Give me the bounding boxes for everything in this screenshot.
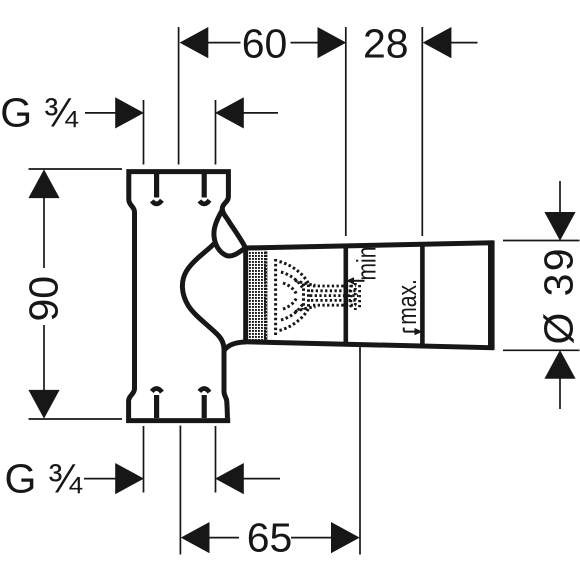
arrow dia39 bottom	[544, 350, 575, 379]
extension line 90 bottom	[29, 418, 123, 420]
cartridge right end cap	[488, 241, 495, 350]
arrow 65 right	[331, 522, 360, 553]
dimension G3/4 top right tail	[243, 112, 278, 114]
arrow 60 right	[318, 27, 347, 58]
dimension 90 line upper	[43, 196, 45, 268]
dimension 90 line lower	[43, 325, 45, 392]
dimension dia39 line lower	[559, 378, 561, 410]
max leader tail	[404, 331, 416, 333]
extension line dia39 bottom	[503, 349, 580, 351]
thread hook bottom right cap	[199, 389, 209, 393]
arrow 65 left	[181, 522, 210, 553]
dimension 28 tail right	[450, 42, 478, 44]
extension line G3/4 bottom left	[143, 426, 145, 493]
arrow 90 top	[28, 169, 59, 198]
thread hook top left cap	[152, 200, 162, 204]
svg-text:max.: max.	[392, 279, 422, 325]
cartridge trapezoid outline	[246, 243, 492, 348]
thread hook bottom right line	[202, 395, 207, 418]
spindle cone neck column 1	[302, 284, 305, 310]
svg-text:65: 65	[247, 515, 293, 561]
body lower right edge	[224, 347, 227, 418]
spindle cone neck lower	[295, 307, 316, 312]
thread hook top right cap	[199, 200, 209, 204]
thread hook top left line	[154, 174, 159, 198]
arrow 90 bottom	[28, 390, 59, 419]
arrow G3/4 top right	[215, 97, 244, 128]
extension line max top	[421, 27, 423, 236]
dimension G3/4 top leader	[85, 112, 117, 114]
thread hook bottom left line	[154, 395, 159, 418]
arrow G3/4 bottom right	[215, 463, 244, 494]
dimension 60 tail left	[207, 42, 241, 44]
spindle cone neck column 2	[307, 285, 310, 309]
spindle cone upper inner arc	[281, 272, 303, 289]
max leader arrow	[415, 328, 423, 335]
svg-text:Ø 39: Ø 39	[536, 246, 580, 345]
dimension 60 tail right	[291, 42, 320, 44]
spindle cone lower inner arc	[281, 304, 303, 321]
thread hook top right line	[202, 174, 207, 198]
spindle cone neck upper	[295, 281, 316, 286]
spindle stem end column 3	[358, 285, 361, 308]
extension line dia39 top	[503, 240, 580, 242]
extension line G3/4 bottom right	[215, 426, 217, 493]
valve body outline	[129, 172, 246, 421]
max leader stub	[403, 328, 405, 332]
funnel teardrop loop	[214, 210, 245, 257]
spindle dense knurl block	[247, 251, 267, 341]
cartridge min line	[343, 245, 348, 344]
svg-text:28: 28	[363, 21, 409, 67]
min leader tail	[353, 280, 365, 282]
dimension dia39 line upper	[559, 181, 561, 213]
spindle cone lower envelope	[280, 308, 310, 331]
spindle stem row 2	[311, 289, 358, 292]
extension line 65 right	[359, 347, 361, 555]
arrow 28 right	[423, 27, 452, 58]
spindle cone upper envelope	[280, 262, 310, 285]
spindle cone core arc lower	[283, 298, 297, 309]
arrow 60 left	[180, 27, 209, 58]
dimension G3/4 bottom right tail	[243, 478, 280, 480]
spindle stem row 5	[313, 304, 356, 307]
extension line G3/4 top left	[143, 100, 145, 165]
spindle cone core arc upper	[283, 283, 297, 294]
arrow G3/4 bottom left	[115, 463, 144, 494]
arrow G3/4 top left	[115, 97, 144, 128]
dimension 65 tail left	[208, 537, 239, 539]
cartridge max line	[420, 244, 425, 346]
min leader arrow	[346, 277, 354, 284]
svg-text:G ¾: G ¾	[5, 455, 83, 501]
extension line G3/4 top right	[215, 100, 217, 165]
extension line 90 top	[29, 168, 123, 170]
arrow dia39 top	[544, 212, 575, 241]
funnel to cartridge corner curve	[225, 342, 246, 350]
dimension G3/4 bottom leader	[84, 478, 117, 480]
svg-text:90: 90	[21, 276, 67, 322]
thread hook bottom left cap	[152, 389, 162, 393]
extension line center bottom	[179, 426, 181, 555]
extension line min top	[345, 27, 347, 236]
svg-text:G ¾: G ¾	[0, 90, 78, 136]
svg-text:60: 60	[242, 21, 288, 67]
spindle stem row 1	[313, 285, 356, 288]
spindle stem row 3	[310, 294, 358, 297]
spindle stem end column 2	[354, 283, 357, 310]
funnel lower outline	[182, 244, 224, 350]
spindle knurl block right edge	[264, 252, 267, 342]
spindle dotted column	[274, 259, 277, 335]
dimension 65 tail right	[291, 537, 332, 539]
spindle stem row 4	[311, 299, 358, 302]
extension line center top	[178, 27, 180, 165]
svg-text:min: min	[352, 247, 382, 281]
spindle stem end column 1	[349, 285, 352, 308]
